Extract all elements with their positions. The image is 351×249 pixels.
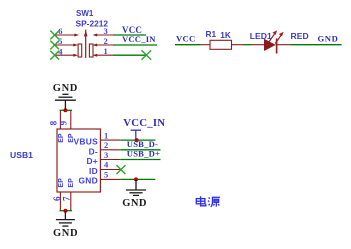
LED1 anode stub — [252, 44, 265, 46]
SW1 pin 3 — [93, 34, 114, 37]
svg-text:D-: D- — [89, 146, 98, 156]
LED LED1 cathode bar — [276, 39, 278, 54]
junction dot bottom — [63, 209, 67, 213]
svg-text:GND: GND — [122, 198, 147, 209]
no-connect X on SW1 pin 6 — [50, 31, 59, 40]
switch SW1 symbol — [78, 30, 93, 58]
power port GND (top) — [55, 94, 76, 110]
svg-text:GND: GND — [318, 34, 339, 44]
wire LED1 to GND — [291, 44, 342, 46]
junction dot pin 5 — [134, 177, 138, 181]
junction dot top — [63, 108, 67, 112]
svg-text:3: 3 — [104, 150, 108, 160]
svg-text:GND: GND — [53, 83, 78, 94]
USB1 pin 4 stub — [101, 169, 120, 171]
text 电源 (character 源) — [208, 197, 220, 207]
power port GND (bottom) — [56, 211, 75, 226]
svg-text:3: 3 — [104, 26, 108, 36]
R1 pin 1 stub — [201, 44, 211, 46]
svg-text:VCC: VCC — [176, 34, 196, 44]
text 电源 (character 电) — [196, 196, 206, 206]
svg-text:5: 5 — [104, 170, 108, 180]
svg-text:EP: EP — [58, 133, 65, 143]
svg-text:2: 2 — [104, 36, 108, 46]
svg-text:9: 9 — [59, 120, 69, 125]
svg-text:VCC_IN: VCC_IN — [122, 34, 156, 44]
svg-text:7: 7 — [61, 196, 71, 201]
no-connect X on SW1 pin 5 — [50, 41, 59, 50]
LED LED1 triangle — [264, 39, 276, 51]
wire USB1 pin 1 to VCC_IN — [120, 139, 155, 141]
SW1 pin 2 — [93, 44, 114, 47]
svg-text:ID: ID — [89, 166, 98, 176]
svg-text:USB_D-: USB_D- — [127, 139, 158, 149]
svg-text:VCC_IN: VCC_IN — [123, 117, 165, 129]
wire USB1 pin 5 to GND — [120, 178, 155, 180]
junction dot pin 1 — [135, 138, 139, 142]
LED light arrow 2 — [275, 32, 283, 44]
USB1 pin 2 stub — [101, 149, 121, 151]
USB1 pin 3 stub — [101, 159, 121, 161]
svg-text:RED: RED — [291, 31, 309, 41]
svg-text:USB_D+: USB_D+ — [127, 149, 160, 159]
LED light arrow 1 — [269, 30, 277, 42]
USB1 pin 5 stub — [101, 178, 121, 180]
wire VCC to R1 — [175, 44, 201, 46]
svg-text:2: 2 — [104, 140, 108, 150]
USB1 pin 6 stub — [59, 192, 61, 211]
svg-text:GND: GND — [78, 176, 98, 186]
USB1 pin 7 stub — [70, 192, 72, 211]
svg-text:EP: EP — [58, 178, 65, 188]
svg-text:USB1: USB1 — [10, 150, 33, 160]
svg-text:8: 8 — [48, 120, 58, 125]
svg-text:EP: EP — [68, 178, 75, 188]
SW1 pin 4 — [55, 54, 78, 57]
SW1 pin 6 — [55, 34, 79, 37]
no-connect X on SW1 pin 1 wire end — [142, 50, 152, 60]
svg-text:SW1: SW1 — [76, 9, 94, 18]
SW1 pin 1 — [93, 54, 114, 57]
wire USB1 pin 3 (USB_D+) — [120, 159, 160, 161]
resistor R1 body — [210, 40, 232, 49]
svg-text:LED1: LED1 — [250, 31, 272, 41]
svg-text:R1: R1 — [206, 29, 217, 39]
svg-text:1K: 1K — [220, 30, 231, 40]
USB1 pin 9 stub — [70, 110, 72, 129]
svg-text:6: 6 — [52, 196, 62, 201]
wire net VCC from SW1 pin 3 — [113, 34, 146, 36]
power port VCC_IN bar — [131, 130, 141, 140]
wire pins 8-9 to GND — [60, 109, 73, 111]
no-connect X on USB1 pin 4 — [116, 165, 125, 174]
R1 pin 2 stub — [232, 44, 244, 46]
svg-text:4: 4 — [104, 160, 109, 170]
USB1 pin 1 stub — [101, 139, 121, 141]
svg-text:VBUS: VBUS — [74, 137, 99, 147]
wire R1 to LED1 — [243, 44, 252, 46]
svg-text:D+: D+ — [86, 156, 98, 166]
wire pins 6-7 to GND — [60, 210, 73, 212]
SW1 pin 5 — [55, 44, 78, 47]
connector USB1 body — [57, 129, 100, 192]
svg-text:GND: GND — [53, 228, 78, 239]
power port GND (pin 5) — [126, 179, 146, 195]
wire net VCC_IN from SW1 pin 2 — [113, 44, 157, 46]
wire stub SW1 pin 1 — [113, 54, 146, 56]
no-connect X on SW1 pin 4 — [50, 51, 59, 60]
USB1 pin 8 stub — [59, 110, 61, 129]
svg-text:1: 1 — [104, 46, 108, 56]
wire USB1 pin 2 (USB_D-) — [120, 149, 160, 151]
LED1 cathode stub — [277, 44, 291, 46]
svg-text:1: 1 — [104, 130, 108, 140]
